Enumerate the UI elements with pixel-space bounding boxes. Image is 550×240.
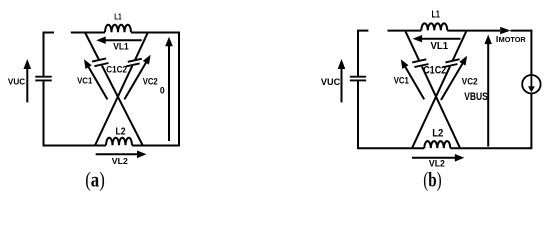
wire diagonal: [95, 66, 132, 145]
current arrowhead IMOTOR: [500, 27, 510, 34]
wire diagonal: [102, 66, 143, 146]
svg-text:VBUS: VBUS: [464, 91, 488, 103]
wire: [71, 32, 105, 34]
wire: [43, 81, 45, 145]
svg-text:VUC: VUC: [321, 77, 341, 87]
inductor L1: [421, 23, 447, 30]
capacitor C2: [446, 59, 460, 62]
svg-text:0: 0: [160, 85, 165, 95]
svg-text:VL1: VL1: [113, 41, 129, 51]
capacitor VUC: [350, 76, 366, 78]
wire: [43, 32, 45, 76]
VUC voltage arrow: [341, 68, 343, 103]
svg-text:L1: L1: [114, 11, 122, 21]
inductor L2: [106, 138, 132, 145]
wire diagonal: [135, 33, 148, 60]
VC1 voltage arrow: [405, 66, 425, 100]
wire: [178, 32, 180, 146]
wire: [357, 147, 424, 149]
capacitor VUC: [35, 76, 51, 78]
VL1 voltage arrow: [421, 38, 461, 40]
svg-text:VL2: VL2: [112, 156, 128, 166]
wire: [357, 30, 359, 76]
VL1 voltage arrow: [104, 39, 142, 41]
wire diagonal: [85, 33, 99, 60]
wire diagonal: [422, 66, 460, 147]
capacitor C1: [412, 59, 426, 62]
VL2 voltage arrow: [412, 157, 456, 159]
svg-text:VC1: VC1: [77, 76, 92, 86]
wire: [43, 32, 54, 34]
VL2 voltage arrow: [96, 153, 139, 155]
wire: [357, 81, 359, 148]
wire diagonal: [453, 31, 467, 60]
current source motor: [522, 75, 540, 93]
svg-text:(a): (a): [85, 167, 105, 191]
svg-text:L2: L2: [432, 128, 443, 140]
wire diagonal: [406, 31, 420, 60]
svg-text:(b): (b): [423, 167, 441, 191]
inductor L2: [424, 141, 450, 148]
svg-text:VC2: VC2: [143, 77, 158, 87]
svg-text:L2: L2: [116, 126, 126, 137]
wire: [131, 32, 180, 34]
VBUS voltage arrow: [487, 43, 489, 147]
svg-text:L1: L1: [432, 10, 441, 21]
svg-text:VC1: VC1: [394, 76, 409, 86]
svg-text:C1C2: C1C2: [106, 65, 127, 76]
svg-text:VC2: VC2: [462, 77, 478, 88]
VC2 voltage arrow: [124, 61, 146, 99]
svg-text:VUC: VUC: [8, 77, 26, 87]
VC1 voltage arrow: [88, 66, 108, 100]
svg-text:IMOTOR: IMOTOR: [496, 34, 526, 44]
VC2 voltage arrow: [441, 62, 463, 100]
V0 voltage arrow: [168, 45, 170, 141]
wire: [511, 30, 533, 32]
VUC voltage arrow: [26, 68, 28, 103]
svg-text:C1C2: C1C2: [423, 65, 446, 77]
inductor L1: [105, 25, 131, 32]
wire: [132, 145, 180, 147]
wire diagonal: [412, 66, 450, 147]
svg-text:VL1: VL1: [431, 41, 449, 52]
wire: [43, 145, 106, 147]
wire: [450, 147, 532, 149]
capacitor C2: [128, 59, 142, 62]
wire: [530, 30, 532, 75]
wire: [357, 30, 368, 32]
wire: [447, 30, 500, 32]
wire: [530, 93, 532, 148]
wire: [388, 30, 422, 32]
capacitor C1: [92, 58, 106, 61]
